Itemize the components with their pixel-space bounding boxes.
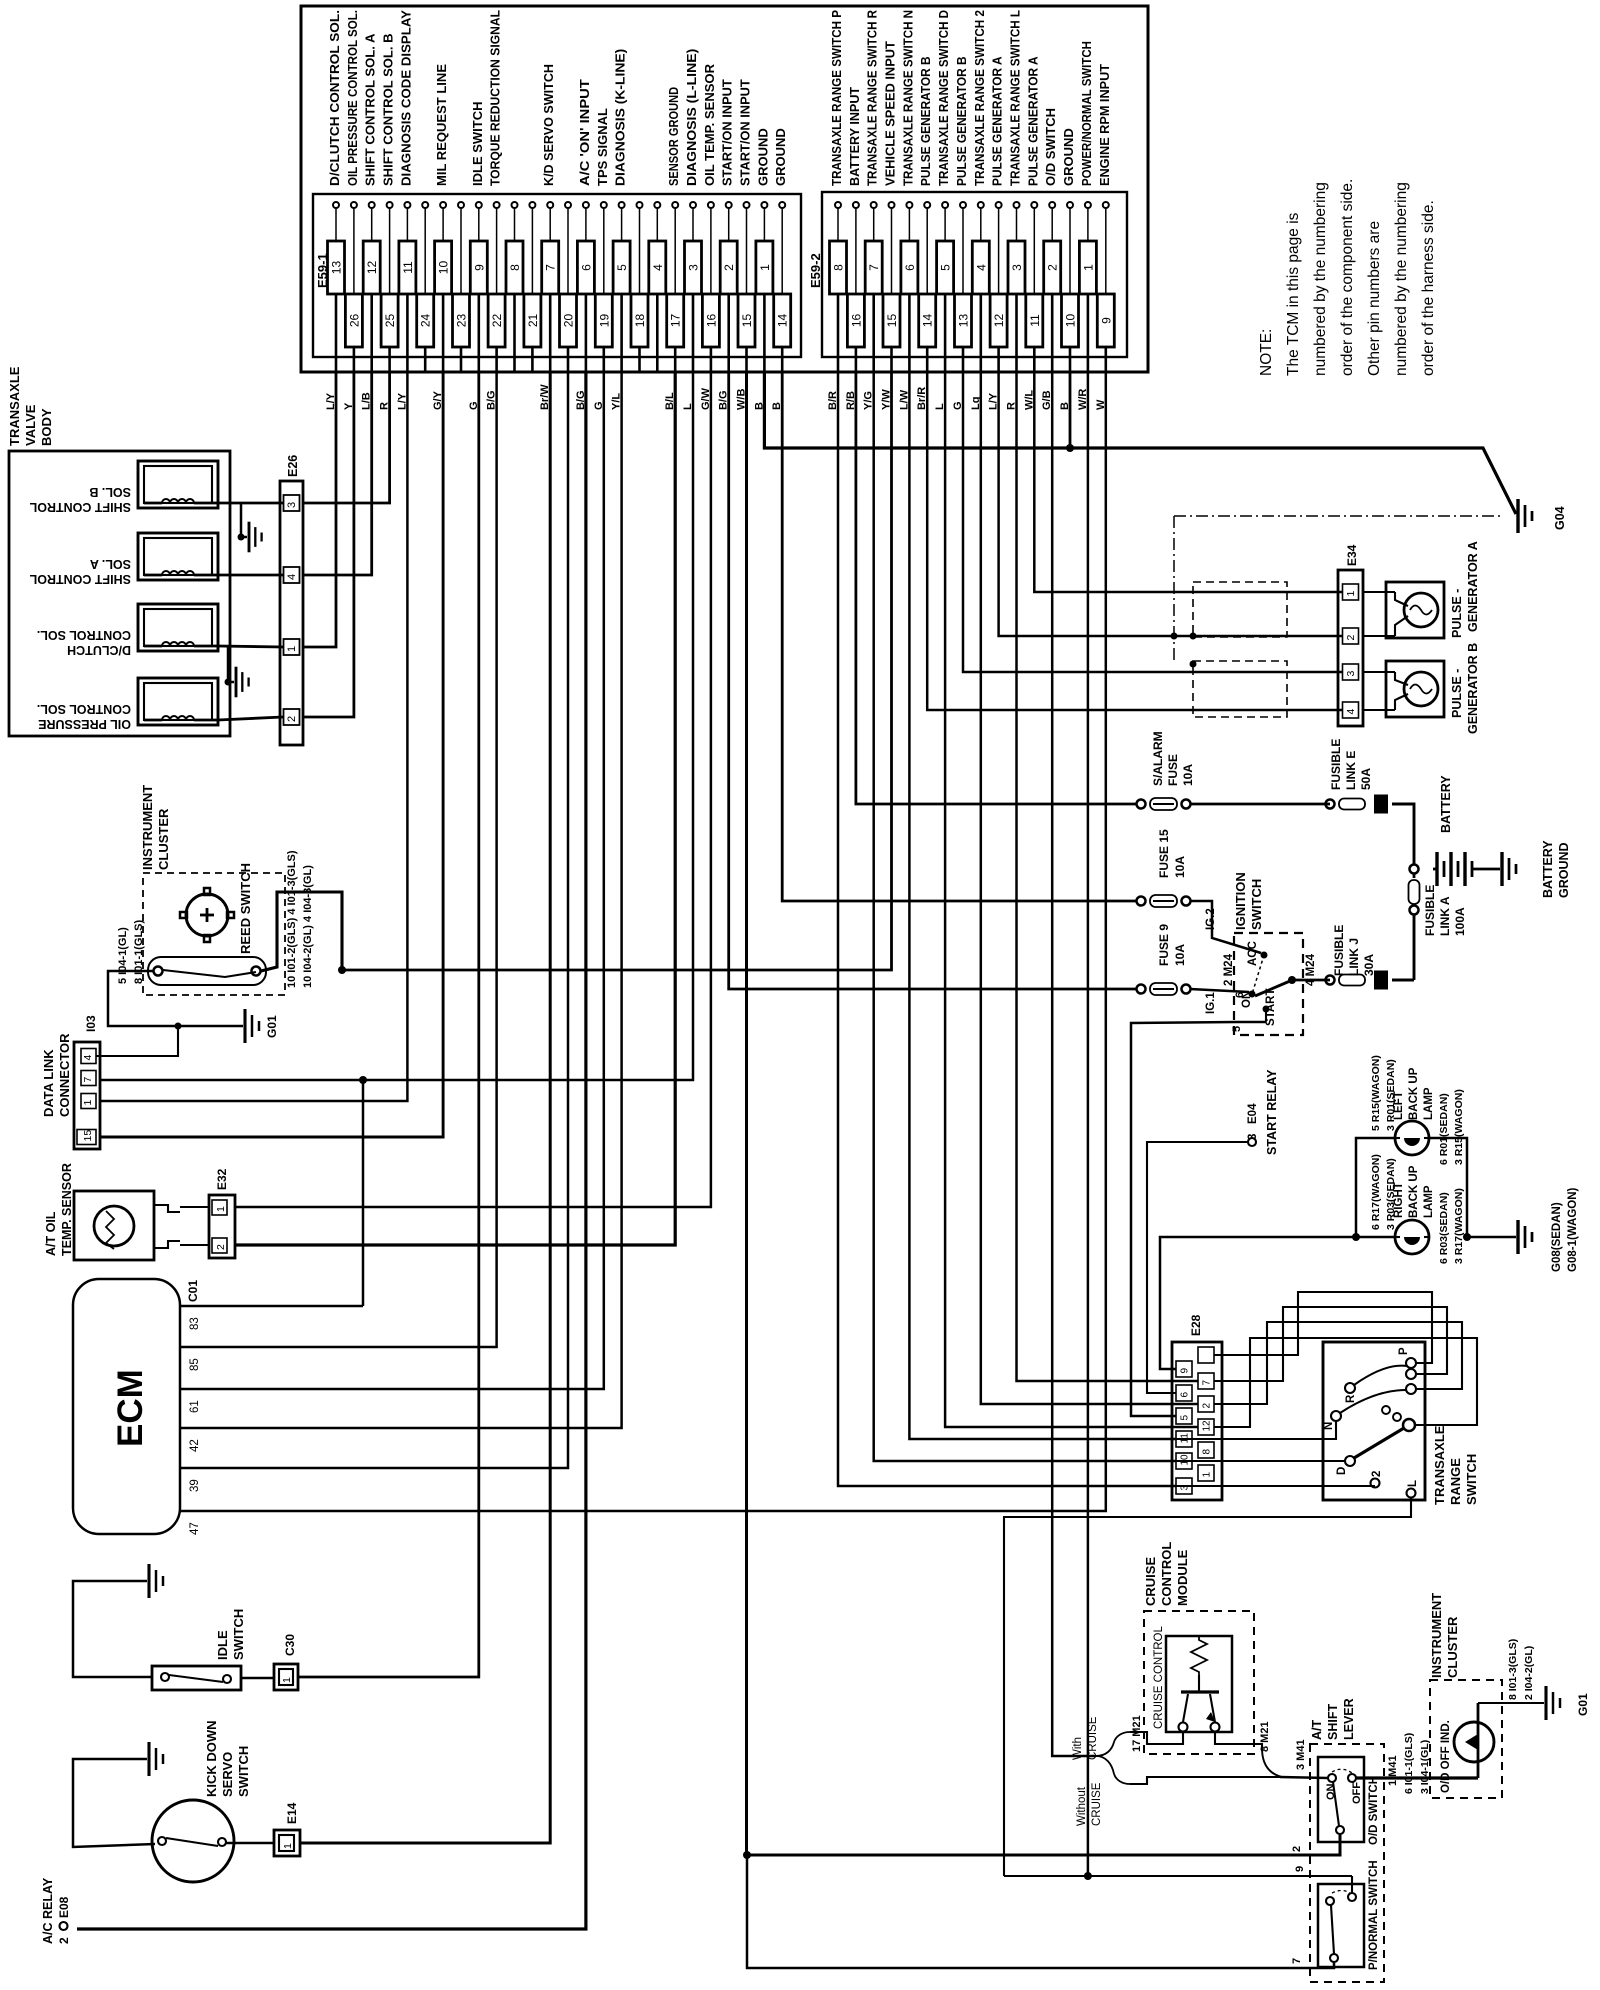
TCM pin 2 (START/ON INPUT) [718, 79, 738, 410]
svg-text:FUSE 9: FUSE 9 [1157, 924, 1171, 966]
svg-text:POWER/NORMAL SWITCH: POWER/NORMAL SWITCH [1079, 41, 1094, 186]
svg-text:7: 7 [867, 264, 881, 271]
svg-text:11: 11 [401, 261, 415, 274]
svg-text:OIL PRESSURE: OIL PRESSURE [38, 717, 131, 731]
wire DLC-1 to TCM pin 11 [100, 372, 407, 1101]
svg-text:11: 11 [1028, 314, 1042, 327]
instrument cluster box (dashed) [143, 873, 285, 995]
svg-text:PULSE -: PULSE - [1450, 589, 1464, 638]
wire O/D common to TCM A15 ground [747, 372, 1341, 1855]
svg-text:2: 2 [1291, 1846, 1303, 1852]
svg-text:20: 20 [562, 314, 576, 328]
svg-text:4: 4 [974, 264, 988, 271]
TCM pin 18 (n.c.) [631, 202, 648, 372]
TCM pin 15 (VEHICLE SPEED INPUT) [881, 41, 901, 410]
range switch contact 2 [1371, 1479, 1380, 1488]
svg-text:10A: 10A [1173, 944, 1187, 966]
svg-text:14: 14 [921, 314, 935, 328]
wire kick down to TCM A7 [226, 1842, 274, 1845]
svg-text:CLUSTER: CLUSTER [156, 808, 171, 870]
svg-text:17 M21: 17 M21 [1131, 1715, 1143, 1752]
svg-text:TRANSAXLE: TRANSAXLE [1432, 1425, 1447, 1505]
junction right lamp ground [1463, 1233, 1471, 1241]
ground (kick down) [147, 1742, 150, 1776]
fusible link E [1326, 800, 1335, 809]
idle switch symbol [152, 1666, 241, 1690]
svg-text:2: 2 [286, 716, 298, 722]
wire E28-10 to D [1176, 1460, 1345, 1462]
wire TCM B8 range P [838, 372, 1176, 1486]
connector E34 strip [1338, 570, 1363, 726]
svg-text:C01: C01 [186, 1280, 200, 1302]
wire fuse to fusible link E [1190, 803, 1330, 806]
svg-text:START RELAY: START RELAY [1265, 1069, 1279, 1155]
svg-text:42: 42 [189, 1439, 201, 1452]
svg-text:9: 9 [1180, 1368, 1191, 1374]
svg-text:N: N [1323, 1422, 1335, 1430]
start relay terminal [1248, 1138, 1256, 1146]
svg-text:PULSE -: PULSE - [1450, 669, 1464, 718]
svg-text:E26: E26 [286, 455, 300, 477]
svg-text:VEHICLE SPEED INPUT: VEHICLE SPEED INPUT [883, 41, 898, 186]
connector E28 pin 3 [1176, 1478, 1192, 1494]
svg-text:12: 12 [365, 261, 379, 275]
svg-text:SWITCH: SWITCH [236, 1746, 251, 1797]
svg-text:DATA LINK: DATA LINK [41, 1049, 56, 1117]
wire TCM B13 to E34-3 [963, 372, 1342, 672]
wire TCM B12 to E34-2 [999, 372, 1342, 636]
svg-text:DIAGNOSIS (L-LINE): DIAGNOSIS (L-LINE) [684, 49, 699, 186]
TCM pin 9 (IDLE SWITCH) [468, 102, 488, 411]
wire E28-3 to 2 [1176, 1485, 1375, 1487]
wire ground to kick down switch [73, 1759, 155, 1847]
wire TCM ground A1 to G04 [764, 372, 1516, 514]
wire E26-3 to TCM pin25 [303, 372, 390, 503]
svg-text:START/ON INPUT: START/ON INPUT [720, 79, 735, 186]
svg-text:1: 1 [1081, 264, 1095, 271]
svg-text:numbered by the numbering: numbered by the numbering [1312, 182, 1329, 376]
wire L contact to P/NORMAL column [1004, 1497, 1411, 1876]
wire ignition START to E28-5 [1131, 1022, 1266, 1416]
svg-text:6 R03(SEDAN): 6 R03(SEDAN) [1438, 1192, 1450, 1264]
svg-text:VALVE: VALVE [23, 404, 38, 446]
svg-text:2: 2 [1371, 1471, 1383, 1477]
connector E28 pin 12 [1198, 1419, 1214, 1435]
svg-text:22: 22 [490, 314, 504, 328]
svg-text:LAMP: LAMP [1423, 1087, 1435, 1120]
svg-text:PULSE GENERATOR A: PULSE GENERATOR A [990, 56, 1005, 186]
connector E28 pin 5 [1176, 1408, 1192, 1424]
svg-text:OIL PRESSURE CONTROL SOL.: OIL PRESSURE CONTROL SOL. [345, 10, 360, 186]
wire vehicle speed to TCM B15 [342, 372, 892, 970]
connector E28 pin 11 [1176, 1431, 1192, 1447]
range switch contact R [1345, 1383, 1355, 1393]
TCM pin 16 (BATTERY INPUT) [845, 87, 865, 410]
connector E28 pin blank [1198, 1347, 1214, 1363]
svg-text:100A: 100A [1453, 907, 1467, 936]
svg-text:CONTROL: CONTROL [1159, 1542, 1174, 1606]
shield box pulse generator A (dashed) [1193, 582, 1287, 637]
svg-text:C30: C30 [283, 1634, 297, 1656]
junction TCM ground B10 [1066, 444, 1074, 452]
svg-text:OFF: OFF [1351, 1782, 1363, 1804]
svg-text:SHIFT CONTROL: SHIFT CONTROL [29, 572, 131, 586]
svg-text:3: 3 [1345, 671, 1357, 677]
TCM pin 1 (GROUND) [753, 128, 773, 410]
svg-text:TRANSAXLE RANGE SWITCH P: TRANSAXLE RANGE SWITCH P [829, 10, 844, 186]
ground G08 [1516, 1220, 1519, 1254]
speedometer symbol [180, 888, 234, 942]
svg-text:6 R17(WAGON): 6 R17(WAGON) [1370, 1154, 1382, 1230]
svg-text:A/T: A/T [1310, 1720, 1324, 1741]
svg-text:30A: 30A [1362, 954, 1376, 976]
svg-text:INSTRUMENT: INSTRUMENT [1429, 1593, 1444, 1678]
svg-text:2: 2 [722, 264, 736, 271]
TCM pin 3 (TRANSAXLE RANGE SWITCH L) [1006, 10, 1026, 410]
O/D switch contacts [1328, 1769, 1356, 1834]
connector E59-1 box [313, 194, 801, 357]
svg-text:O/D SWITCH: O/D SWITCH [1043, 108, 1058, 186]
range switch contact P [1406, 1358, 1416, 1368]
range switch arc N-P3 [1340, 1390, 1406, 1413]
svg-text:39: 39 [189, 1479, 201, 1492]
svg-text:O/D OFF IND.: O/D OFF IND. [1440, 1720, 1452, 1793]
svg-text:Other pin numbers are: Other pin numbers are [1366, 221, 1383, 376]
svg-text:BATTERY: BATTERY [1439, 775, 1453, 833]
svg-text:ECM: ECM [111, 1369, 150, 1447]
wire TCM B5 range D [945, 372, 1198, 1427]
connector E26 pin 1 [284, 639, 300, 655]
ECM box [73, 1279, 180, 1534]
svg-text:SOL. B: SOL. B [89, 485, 131, 499]
wire E28-11 to N region [1176, 1421, 1336, 1439]
svg-text:10 I01-2(GLS) 4 I01-3(GLS): 10 I01-2(GLS) 4 I01-3(GLS) [286, 850, 298, 988]
battery ground [1500, 852, 1503, 886]
wire idle switch to TCM A9 [241, 1677, 274, 1680]
svg-text:47: 47 [189, 1522, 201, 1535]
svg-text:6: 6 [903, 264, 917, 271]
TCM pin 23 (n.c.) [453, 202, 470, 372]
svg-text:G08(SEDAN): G08(SEDAN) [1551, 1202, 1563, 1272]
svg-text:3: 3 [1010, 264, 1024, 271]
svg-text:START/ON INPUT: START/ON INPUT [738, 79, 753, 186]
wire E28-6 to start relay [1147, 1142, 1247, 1393]
connector E28 pin 10 [1176, 1453, 1192, 1469]
svg-text:IDLE: IDLE [215, 1630, 230, 1660]
svg-text:10A: 10A [1181, 764, 1195, 786]
wire ECM-85 torque reduction to TCM A22 [180, 372, 497, 1347]
svg-text:BODY: BODY [39, 408, 54, 446]
connector E14 [274, 1830, 300, 1856]
range switch contact P3 [1406, 1384, 1416, 1394]
svg-text:S/ALARM: S/ALARM [1151, 731, 1165, 786]
pulse generator B symbol [1363, 661, 1444, 717]
svg-text:E59-2: E59-2 [808, 253, 823, 288]
TCM pin 12 (SHIFT CONTROL SOL. A) [361, 33, 381, 410]
svg-text:26: 26 [347, 314, 361, 328]
svg-text:BACK UP: BACK UP [1408, 1165, 1420, 1218]
svg-text:GROUND: GROUND [755, 128, 770, 186]
wire shield drain to G04 (dash-dot) [1174, 515, 1502, 517]
svg-text:4: 4 [651, 264, 665, 271]
svg-text:DIAGNOSIS CODE DISPLAY: DIAGNOSIS CODE DISPLAY [398, 10, 413, 186]
svg-text:A/C RELAY: A/C RELAY [41, 1877, 55, 1944]
TCM pin 7 (TRANSAXLE RANGE SWITCH R) [863, 9, 883, 410]
connector E28 pin 9 [1176, 1361, 1192, 1377]
svg-text:61: 61 [189, 1400, 201, 1413]
svg-text:TPS SIGNAL: TPS SIGNAL [595, 108, 610, 186]
wire E28-12 bracket to moving contact [1214, 1338, 1477, 1427]
wire E28-7 bracket to P2 [1214, 1307, 1447, 1381]
svg-text:E08: E08 [57, 1896, 71, 1918]
wire ECM-61 TPS to TCM A19 [180, 372, 604, 1389]
cruise control module box (dashed) [1144, 1611, 1254, 1754]
svg-text:G01: G01 [1576, 1693, 1590, 1716]
wire TCM B4 range 2 [981, 372, 1198, 1404]
wire IG.2 to ignition switch [1190, 901, 1261, 953]
wire E28-2 bracket to P3 [1214, 1322, 1462, 1404]
shield box pulse generator B (dashed) [1193, 661, 1287, 717]
svg-text:3 R17(WAGON): 3 R17(WAGON) [1453, 1188, 1465, 1264]
transaxle valve body box [9, 451, 230, 736]
TCM pin 4 (TRANSAXLE RANGE SWITCH 2) [970, 10, 990, 410]
svg-text:10: 10 [437, 261, 451, 275]
svg-text:CONNECTOR: CONNECTOR [57, 1033, 72, 1117]
svg-text:19: 19 [597, 314, 611, 328]
svg-text:SHIFT CONTROL SOL. B: SHIFT CONTROL SOL. B [381, 33, 396, 186]
wire IG.1 to ignition switch ON [1190, 989, 1249, 992]
wire fusible link J to battery node [1392, 979, 1414, 982]
svg-text:9: 9 [1099, 317, 1113, 324]
svg-text:FUSIBLE: FUSIBLE [1329, 739, 1343, 790]
ignition switch box (dashed) [1234, 933, 1303, 1035]
ground G01 [243, 1009, 246, 1043]
wire left lamp to ground branch [1429, 1138, 1467, 1237]
svg-text:3 R01(SEDAN): 3 R01(SEDAN) [1385, 1059, 1397, 1131]
svg-text:23: 23 [455, 314, 469, 328]
battery node [1410, 865, 1419, 874]
svg-text:G01: G01 [265, 1015, 279, 1038]
svg-text:TRANSAXLE RANGE SWITCH L: TRANSAXLE RANGE SWITCH L [1008, 10, 1023, 186]
svg-text:TORQUE REDUCTION SIGNAL: TORQUE REDUCTION SIGNAL [488, 10, 503, 186]
svg-text:SHIFT: SHIFT [1326, 1704, 1340, 1740]
svg-text:4: 4 [82, 1055, 94, 1061]
TCM pin 11 (DIAGNOSIS CODE DISPLAY) [396, 10, 416, 410]
svg-text:LINK A: LINK A [1438, 896, 1452, 936]
svg-text:SERVO: SERVO [220, 1752, 235, 1797]
wire TCM A2 to fuse 9 [729, 372, 1136, 989]
ground G04 [1516, 499, 1519, 533]
svg-text:A/C 'ON' INPUT: A/C 'ON' INPUT [577, 79, 592, 186]
svg-text:SHIFT CONTROL SOL. A: SHIFT CONTROL SOL. A [363, 33, 378, 186]
svg-text:7: 7 [82, 1077, 94, 1083]
wire sensor to E32 [180, 1206, 209, 1208]
fusible link J [1326, 976, 1335, 985]
A/T shift lever box (dashed) [1310, 1744, 1384, 1982]
data link connector pin 7 [81, 1071, 96, 1086]
svg-text:With: With [1072, 1737, 1084, 1760]
svg-text:CONTROL SOL.: CONTROL SOL. [37, 702, 131, 716]
range switch contact P2 [1406, 1369, 1416, 1379]
svg-text:6: 6 [579, 264, 593, 271]
ground (valve body lower) [235, 667, 238, 698]
wire E32-1 oil temp signal to TCM A16 [235, 372, 711, 1207]
svg-text:5: 5 [939, 264, 953, 271]
svg-text:TRANSAXLE RANGE SWITCH D: TRANSAXLE RANGE SWITCH D [936, 10, 951, 186]
svg-text:BACK UP: BACK UP [1408, 1067, 1420, 1120]
wire ECM-47 engine rpm to TCM B9 [180, 372, 1106, 1511]
svg-text:2 M24: 2 M24 [1223, 953, 1235, 986]
svg-text:8 I01-1(GLS): 8 I01-1(GLS) [133, 919, 145, 984]
svg-text:INSTRUMENT: INSTRUMENT [140, 785, 155, 870]
wire cruise pin 17 [1166, 1732, 1183, 1744]
svg-text:D: D [1336, 1467, 1348, 1475]
TCM pin 15 (START/ON INPUT) [736, 79, 756, 410]
svg-text:2: 2 [57, 1937, 71, 1944]
wire TCM B14 to E34-4 [927, 372, 1342, 710]
svg-text:IG.1: IG.1 [1205, 992, 1217, 1014]
TCM pin 13 (PULSE GENERATOR B) [952, 56, 972, 410]
svg-text:IGNITION: IGNITION [1233, 872, 1248, 930]
svg-text:12: 12 [992, 314, 1006, 328]
wire TCM B7 range R [874, 372, 1176, 1461]
svg-text:GENERATOR B: GENERATOR B [1466, 643, 1480, 734]
svg-text:MODULE: MODULE [1175, 1549, 1190, 1606]
connector E28 pin 6 [1176, 1385, 1192, 1401]
svg-text:8 I01-3(GLS): 8 I01-3(GLS) [1507, 1639, 1519, 1700]
svg-text:CRUISE: CRUISE [1091, 1782, 1103, 1826]
TCM pin 5 (TRANSAXLE RANGE SWITCH D) [934, 10, 954, 410]
junction back up lamp left [1352, 1233, 1360, 1241]
svg-text:PULSE GENERATOR A: PULSE GENERATOR A [1025, 56, 1040, 186]
svg-text:8: 8 [832, 264, 846, 271]
wire indicator to G01 [1478, 1702, 1544, 1704]
wire TCM B3 range L [1017, 372, 1199, 1381]
svg-text:CONTROL SOL.: CONTROL SOL. [37, 628, 131, 642]
wire A/C relay to TCM A6 [77, 372, 586, 1929]
wire E26-2 to TCM pin26 [303, 372, 354, 717]
solenoid SHIFT CONTROL SOL. B [29, 461, 218, 514]
TCM pin 8 (TRANSAXLE RANGE SWITCH P) [827, 10, 847, 410]
svg-text:1: 1 [1345, 591, 1357, 597]
svg-text:G08-1(WAGON): G08-1(WAGON) [1567, 1187, 1579, 1272]
svg-text:3: 3 [1247, 1134, 1259, 1140]
svg-text:10: 10 [1180, 1454, 1191, 1466]
svg-text:O/D SWITCH: O/D SWITCH [1368, 1776, 1380, 1845]
svg-text:The TCM in this page is: The TCM in this page is [1285, 212, 1302, 376]
svg-text:1: 1 [281, 1677, 293, 1683]
svg-text:10A: 10A [1173, 856, 1187, 878]
TCM pin 19 (TPS SIGNAL) [593, 108, 613, 410]
wire reed left to G01 [108, 971, 243, 1026]
svg-text:4: 4 [1345, 709, 1357, 715]
svg-text:REED SWITCH: REED SWITCH [238, 863, 253, 954]
svg-text:D/CLUTCH CONTROL SOL.: D/CLUTCH CONTROL SOL. [327, 10, 342, 186]
svg-text:2: 2 [1202, 1403, 1213, 1409]
wire solenoid ground branch 1 [241, 503, 247, 537]
svg-text:SWITCH: SWITCH [231, 1609, 246, 1660]
connector E28 pin 7 [1198, 1373, 1214, 1389]
svg-text:TRANSAXLE: TRANSAXLE [7, 366, 22, 446]
svg-text:1: 1 [215, 1206, 227, 1212]
svg-text:E04: E04 [1247, 1103, 1259, 1124]
instrument cluster box 2 (dashed) [1430, 1680, 1502, 1798]
svg-text:A/T OIL: A/T OIL [44, 1211, 58, 1256]
svg-text:1: 1 [1202, 1472, 1213, 1478]
range switch blade [1354, 1428, 1404, 1458]
svg-text:RANGE: RANGE [1448, 1458, 1463, 1505]
svg-text:50A: 50A [1359, 768, 1373, 790]
TCM pin 11 (PULSE GENERATOR A) [1023, 56, 1043, 410]
svg-text:3 M41: 3 M41 [1295, 1739, 1307, 1770]
svg-text:SENSOR GROUND: SENSOR GROUND [666, 87, 681, 186]
svg-text:9: 9 [472, 264, 486, 271]
svg-text:GENERATOR A: GENERATOR A [1466, 541, 1480, 632]
TCM pin 16 (OIL TEMP. SENSOR) [700, 63, 720, 410]
TCM pin 6 (TRANSAXLE RANGE SWITCH N) [898, 10, 918, 410]
TCM pin 21 (n.c.) [524, 202, 541, 372]
O/D OFF indicator lamp [1454, 1703, 1494, 1778]
wire E32-2 sensor ground to TCM A17 [235, 372, 675, 1245]
connector C30 [274, 1664, 298, 1690]
TCM pin 10 (GROUND) [1059, 128, 1079, 410]
svg-text:8: 8 [508, 264, 522, 271]
wire DLC-7 branch to ECM 83 [362, 1080, 365, 1306]
svg-text:BATTERY: BATTERY [1541, 840, 1555, 898]
svg-text:7: 7 [1291, 1958, 1303, 1964]
svg-text:E34: E34 [1345, 544, 1359, 566]
svg-text:5: 5 [1231, 1026, 1243, 1032]
svg-text:LINK E: LINK E [1344, 751, 1358, 790]
svg-text:1: 1 [82, 1100, 94, 1106]
TCM pin 20 (n.c.) [560, 202, 577, 372]
svg-text:83: 83 [189, 1317, 201, 1330]
TCM pin 10 (MIL REQUEST LINE) [432, 64, 452, 410]
svg-text:3: 3 [687, 264, 701, 271]
wire ECM-42 diagnosis K to TCM A5 [180, 372, 622, 1428]
kick down servo switch symbol [152, 1800, 234, 1882]
wire fusible link E to battery [1392, 804, 1414, 864]
wire without-cruise bypass [1130, 1777, 1280, 1784]
connector E59-2 box [822, 192, 1127, 357]
svg-text:7: 7 [1202, 1380, 1213, 1386]
svg-text:MIL REQUEST LINE: MIL REQUEST LINE [434, 64, 449, 186]
svg-text:order of the component side.: order of the component side. [1339, 179, 1356, 376]
cruise control inner box [1166, 1636, 1232, 1732]
svg-text:7: 7 [544, 264, 558, 271]
ground (idle switch) [147, 1564, 150, 1598]
wire with-cruise branch to cruise module pin 17 [1130, 1732, 1166, 1744]
P/NORMAL switch box [1318, 1884, 1364, 1967]
wire P/NORMAL common to ground branch [747, 1855, 1334, 1968]
wire TCM B6 range N [909, 372, 1176, 1439]
svg-text:2: 2 [1046, 264, 1060, 271]
connector E32 pin 1 [212, 1200, 227, 1215]
wire TCM B2 O/D switch feed [1052, 372, 1096, 1756]
svg-text:P: P [1398, 1347, 1410, 1355]
TCM pin 14 (PULSE GENERATOR B) [916, 56, 936, 410]
svg-text:KICK DOWN: KICK DOWN [204, 1720, 219, 1797]
transaxle range switch box [1323, 1342, 1425, 1500]
svg-text:R: R [1345, 1394, 1357, 1403]
TCM pin 12 (PULSE GENERATOR A) [988, 56, 1008, 410]
S/ALARM fuse [1137, 800, 1146, 809]
svg-text:3 R15(WAGON): 3 R15(WAGON) [1453, 1089, 1465, 1165]
fusible link A (vertical) [1413, 873, 1416, 878]
svg-text:10: 10 [1064, 314, 1078, 328]
svg-text:6 I01-1(GLS): 6 I01-1(GLS) [1403, 1733, 1415, 1794]
svg-text:16: 16 [849, 314, 863, 328]
